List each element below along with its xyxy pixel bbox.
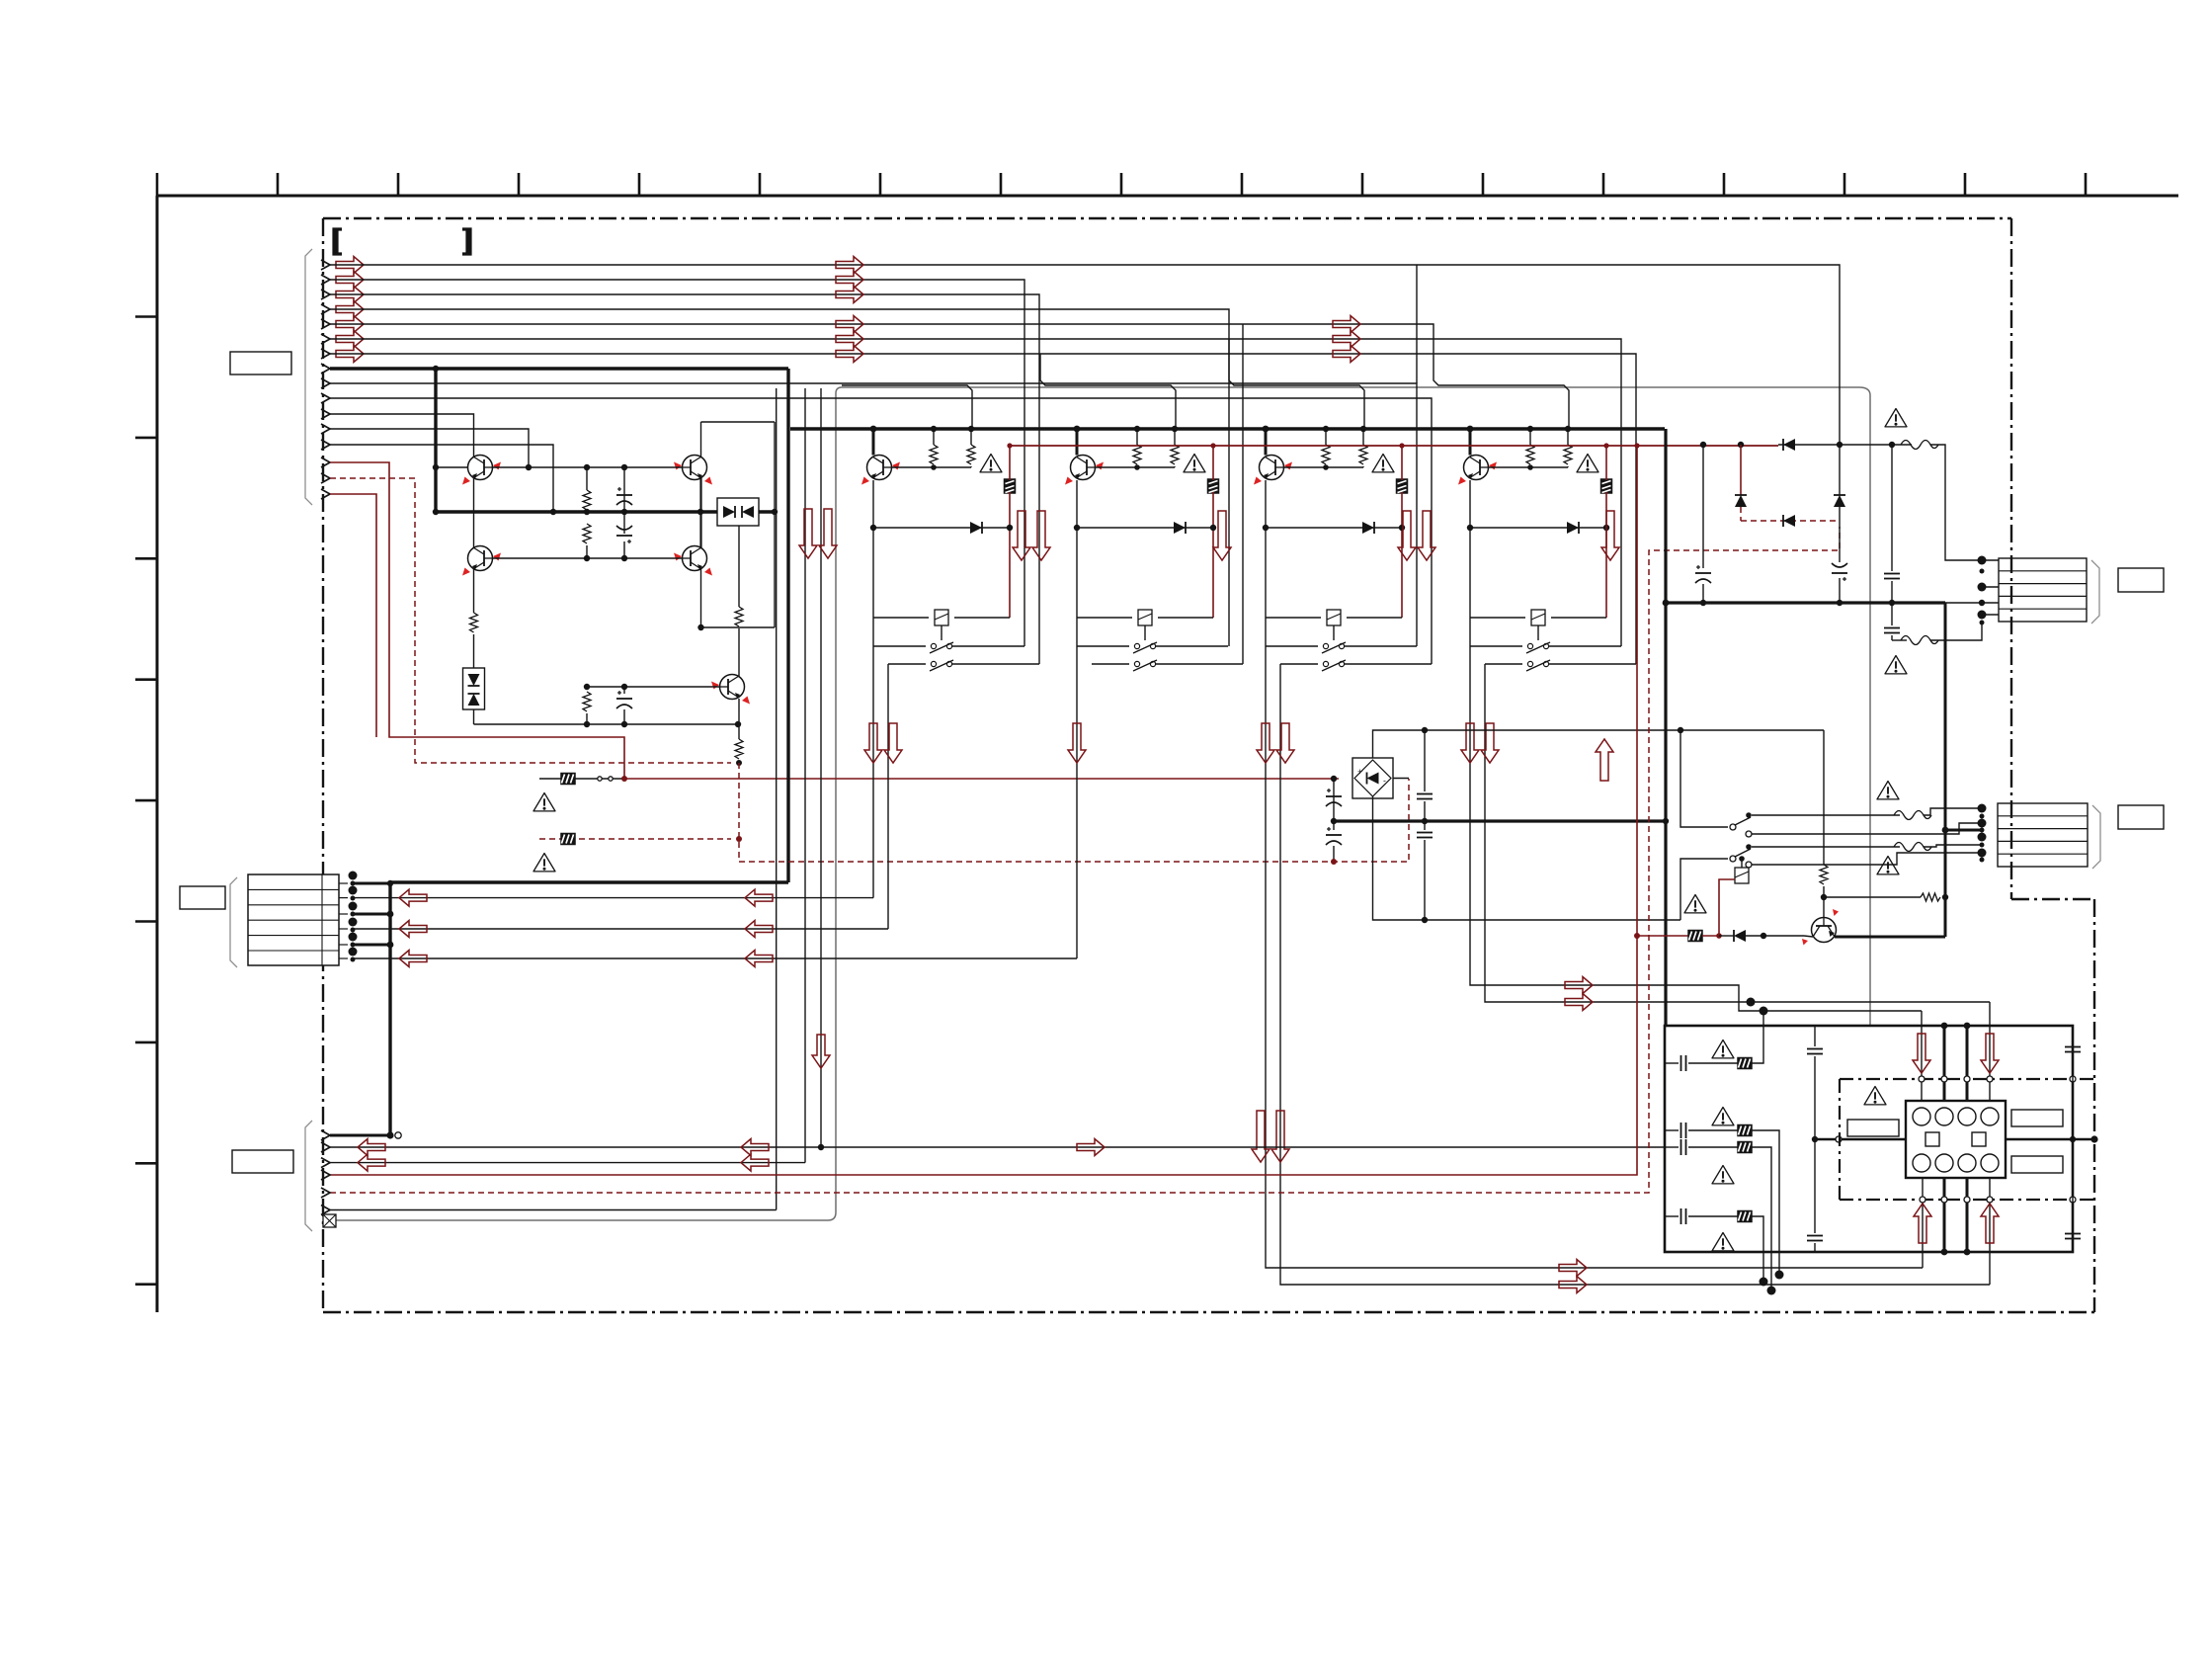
switch S4b <box>1485 660 1636 671</box>
wire bridge bottom out <box>1373 796 1681 920</box>
switch S3b <box>1280 660 1432 671</box>
dots mid rail <box>584 684 741 727</box>
resistor R11 <box>930 426 938 470</box>
wire supply stub block3 <box>1263 426 1270 456</box>
wire Q3 to R3 <box>473 569 475 613</box>
wire vertical block3 aux <box>1416 265 1418 383</box>
wire f4 right <box>1924 845 1982 847</box>
wire cn2 row thick2 <box>353 913 390 916</box>
wire row4 <box>1665 1215 1738 1217</box>
transistor Q2 <box>674 456 712 485</box>
arrows pair D <box>1398 511 1435 560</box>
dot red row <box>621 776 627 782</box>
wire C3 b <box>623 709 625 724</box>
wire row1b <box>1752 1011 1763 1063</box>
cap row1 <box>1681 1055 1686 1071</box>
wire m1 pins <box>1982 560 1999 615</box>
resistor R41 <box>1526 426 1534 470</box>
wire row3 <box>1665 1146 1738 1148</box>
board boundary dash-dot right lower <box>2093 899 2095 1312</box>
wire left drop block2 <box>1076 528 1078 646</box>
warning tri row2 <box>1712 1108 1734 1125</box>
warning tri row4 <box>1712 1233 1734 1251</box>
dots bottom out <box>1760 1271 1784 1295</box>
arrows cn3 right <box>741 1139 769 1172</box>
transistor Q5 <box>711 675 750 705</box>
wire c12 <box>1424 730 1426 791</box>
wire Q2 collector drop <box>699 478 701 547</box>
wire Q2 top <box>700 422 702 457</box>
wire relay feed <box>1815 1138 1906 1140</box>
diode D13 <box>1783 515 1795 527</box>
arrow up J <box>1596 739 1613 781</box>
label box relay left <box>1847 1120 1899 1136</box>
wire f3 right <box>1924 808 1982 815</box>
wire c17 down <box>1891 635 1893 640</box>
arrows into block top <box>1565 977 1593 1011</box>
wire red-dash row15 <box>330 478 731 763</box>
capacitor C13 <box>1417 833 1433 838</box>
wire red drop lower block1 <box>1009 492 1011 618</box>
connector CN2 pin stubs <box>339 883 348 958</box>
dot dash node <box>736 760 742 766</box>
long row2 wire <box>330 1146 1666 1148</box>
wire c23b <box>2072 1241 2074 1252</box>
transistor Q1 <box>462 456 501 485</box>
long red dash row <box>330 527 1840 1193</box>
wire d12 up <box>1839 445 1841 495</box>
dots diode row <box>1700 442 1895 448</box>
wire red drop lower block4 <box>1605 492 1607 618</box>
warning tri relay <box>1864 1087 1886 1105</box>
relay coil RY2 <box>1735 868 1749 883</box>
thick bus rail A <box>790 427 1665 430</box>
wire bus row10 <box>330 398 1432 664</box>
wire Q5 base rail <box>587 686 719 688</box>
block2 descender d1 <box>1076 646 1078 958</box>
wire c12-13 <box>1424 801 1426 830</box>
wire bus row6 <box>330 339 1621 646</box>
wire mid rail <box>474 723 740 725</box>
arrows pair H2 <box>1257 723 1294 763</box>
shield wire grey rail <box>336 387 1870 1220</box>
right rail thin ext <box>1945 602 1999 604</box>
warning tri row3 <box>1712 1166 1734 1184</box>
resistor R31 <box>1322 426 1330 470</box>
capacitor C1 <box>616 487 632 505</box>
arrow right mid <box>1077 1139 1105 1156</box>
wire left drop block1 <box>872 528 874 646</box>
resistor R21 <box>1820 865 1828 884</box>
svg-text:+: + <box>1357 767 1362 777</box>
resistor R32 <box>1359 426 1367 467</box>
relay pin v1 <box>1921 1011 1923 1101</box>
capacitor C16 <box>1884 574 1900 579</box>
warning triangle block1 <box>980 455 1002 472</box>
board boundary dash-dot right step <box>2011 898 2094 900</box>
dot dash2 <box>736 836 742 842</box>
dot base rails <box>526 464 627 561</box>
dual diode D1 <box>717 498 759 526</box>
resistor R4 <box>735 607 743 626</box>
transistor Q3 <box>462 546 501 576</box>
wire bus row2 <box>330 280 1024 646</box>
open circles relay bottom <box>1920 1197 2076 1203</box>
signal arrows out of CN1 <box>336 257 364 363</box>
relay block RY1 <box>1906 1101 2006 1178</box>
wire f2 <box>1892 639 1907 641</box>
connector CN2 body <box>248 874 339 965</box>
wire selector feed1 <box>1680 730 1728 827</box>
wire bus row13 <box>330 445 553 512</box>
warning triangle block4 <box>1577 455 1598 472</box>
diode D14 <box>1734 930 1746 942</box>
cap row4 <box>1681 1208 1686 1224</box>
wire emitter drop Q12 <box>1076 480 1078 528</box>
dot top rail sel <box>1678 727 1683 733</box>
amplifier channel block 4 <box>1458 426 1636 671</box>
wire bus row12 <box>330 429 529 467</box>
thick vertical right <box>1944 603 1947 930</box>
wire left drop block3 <box>1265 528 1267 646</box>
wire c15 <box>1839 507 1841 562</box>
label box M2 <box>2118 805 2164 829</box>
arrows pair A <box>799 509 837 558</box>
amplifier channel block 2 <box>1065 426 1243 671</box>
fusible resistor FR21 <box>1208 479 1219 493</box>
warning triangle fr2 <box>533 854 555 872</box>
wire q6 emitter thick <box>1835 936 1945 939</box>
wire cn3 row1 thick <box>330 1134 390 1137</box>
diode D10 <box>1783 439 1795 451</box>
long wire mid2 <box>353 928 888 930</box>
wire Q1-Q2 base rail <box>493 466 683 468</box>
wire sel out1 <box>1752 814 1900 816</box>
amplifier channel block 1 <box>861 426 1039 671</box>
diode D11 <box>970 522 982 534</box>
long wire mid1 <box>353 897 873 899</box>
fusible FR4 <box>1738 1125 1752 1136</box>
board boundary dash-dot bottom <box>323 1311 2094 1313</box>
wire red drop lower block2 <box>1212 492 1214 618</box>
wire bus row7 <box>330 354 1636 664</box>
wire bridge minus v <box>1333 779 1335 830</box>
wire sel out2 <box>1752 846 1900 848</box>
capacitor C3 <box>616 691 632 708</box>
diode D21 <box>1174 522 1186 534</box>
block4 descender d1 <box>1470 646 1922 1011</box>
switch S4a <box>1470 642 1621 653</box>
wire c17 v <box>1891 581 1893 625</box>
motor M2 pin dots <box>1978 804 1987 863</box>
resistor R20 <box>1921 893 1940 901</box>
label box CN3 <box>232 1150 293 1173</box>
wire fusible row2 dash <box>539 838 731 840</box>
board boundary dash-dot right upper <box>2010 218 2012 899</box>
diode D41 <box>1567 522 1579 534</box>
long red row <box>330 446 1637 1175</box>
resistor R3 <box>470 613 478 632</box>
wire c23 <box>2072 1139 2074 1231</box>
wire red drop lower block3 <box>1401 492 1403 618</box>
arrows relay top <box>1913 1034 1999 1073</box>
board boundary dash-dot top <box>323 217 2011 219</box>
connector CN2 bracket <box>230 877 237 967</box>
board title bracket right <box>462 229 470 254</box>
block4 descender d2 <box>1485 664 1990 1002</box>
arrows pair B <box>1013 511 1050 560</box>
transistor Q4 <box>674 546 712 576</box>
dot c11 bottom <box>1331 859 1337 865</box>
wire ry2 row red <box>1637 935 1688 937</box>
resistor R1 <box>583 490 591 510</box>
wire c15 down <box>1839 578 1841 603</box>
junction dots thick net <box>387 366 778 886</box>
thick right rail <box>1665 601 1945 604</box>
resistor R22 <box>1171 426 1179 467</box>
wire Q3-Q4 base rail <box>493 557 683 559</box>
resistor R2 <box>583 524 591 543</box>
relay pin v2 low <box>1943 1178 1946 1252</box>
capacitor C11 <box>1326 827 1342 845</box>
arrows cn3 <box>358 1139 385 1172</box>
label box CN1 <box>230 352 291 374</box>
red supply bus <box>1010 445 1778 447</box>
thick mid rail <box>1334 819 1666 822</box>
block3 descender d2 <box>1280 664 1990 1285</box>
amplifier channel block 3 <box>1254 426 1432 671</box>
capacitor C12 <box>1417 794 1433 799</box>
wire left drop block4 <box>1469 528 1471 646</box>
wire red drop upper block3 <box>1401 446 1403 480</box>
dot relay out <box>2070 1135 2098 1142</box>
diode D12 <box>1834 495 1845 507</box>
zener pair D2 <box>463 668 485 709</box>
wire bridge top out <box>1373 730 1825 758</box>
capacitor C15 <box>1832 563 1847 581</box>
cap C23 <box>2065 1234 2081 1239</box>
transistor Q14 <box>1458 456 1497 485</box>
wire d11 down <box>1740 507 1742 521</box>
dot ry2 top <box>1739 856 1745 862</box>
wire R3 to D2 <box>473 634 475 668</box>
thick bottom rail <box>390 880 788 883</box>
arrows on mid wires L <box>399 889 427 966</box>
long wire mid3 <box>353 957 1077 959</box>
frame tick marks top <box>157 173 2086 196</box>
dot drop C <box>818 1144 824 1150</box>
wire Q1 collector drop <box>473 478 475 547</box>
fuse F2 <box>1901 636 1938 645</box>
wire drop B <box>804 388 806 1163</box>
wire R2 bot <box>586 545 588 558</box>
wire Q2 collector loop <box>701 421 776 423</box>
connector CN3 shield pin <box>323 1214 336 1227</box>
connector CN3 bracket <box>305 1121 312 1231</box>
wire Q4 emitter loop <box>701 569 776 627</box>
wire row2 <box>1665 1129 1738 1131</box>
wire c14 <box>1702 445 1704 568</box>
relay unit dash-dot box <box>1840 1079 2094 1200</box>
long row6 wire <box>330 1209 777 1211</box>
wire row2b <box>1752 1130 1779 1275</box>
arrow single E <box>1601 511 1619 560</box>
dot thick2 <box>387 911 394 918</box>
connector CN1 bracket <box>305 249 312 505</box>
thick vert extend <box>1944 930 1947 937</box>
wire loop to R4 <box>738 526 740 607</box>
board title bracket left <box>334 229 342 254</box>
svg-text:-: - <box>1383 776 1386 786</box>
red wire ry2 <box>1719 879 1735 936</box>
warning tri row1 <box>1712 1040 1734 1058</box>
wire cn2 row thick1 <box>353 882 390 885</box>
wire fusible row1 <box>539 778 624 780</box>
wire selector feed2 <box>1680 859 1728 920</box>
wire q6 collector up <box>1823 897 1825 918</box>
dot fr7 red <box>1716 933 1722 939</box>
block3 descender d1 <box>1266 646 1923 1268</box>
wire row4b <box>1752 1216 1763 1282</box>
wire relay out right <box>2006 1138 2094 1140</box>
wire interconnect run1 <box>842 385 972 429</box>
wire emitter drop Q14 <box>1469 480 1471 528</box>
wire d11-d12 link <box>1741 520 1840 522</box>
resistor R12 <box>967 426 975 467</box>
wire diode row block4 <box>1467 525 1609 531</box>
wire Q5 emitter <box>738 699 740 739</box>
thick net vertical stub <box>434 369 437 512</box>
capacitor C17 <box>1884 628 1900 633</box>
dot relay feed <box>1812 1136 1818 1142</box>
motor M1 pin dots <box>1978 556 1987 625</box>
wire bus row4 <box>330 309 1229 646</box>
arrows pair I <box>1461 723 1499 763</box>
wire base rail block2 <box>1095 466 1175 468</box>
fusible resistor FR41 <box>1601 479 1612 493</box>
wire vertical block2 aux <box>1242 324 1244 664</box>
fuse F1 <box>1901 441 1938 450</box>
frame tick marks left <box>135 317 157 1285</box>
dots right rail <box>1700 600 1985 606</box>
connector CN1 pins <box>321 260 330 499</box>
capacitor C10 <box>1326 789 1342 806</box>
wire R5 bot <box>586 713 588 724</box>
switch S2b <box>1092 660 1243 671</box>
wire base rail block3 <box>1283 466 1363 468</box>
dot thick3 <box>387 942 394 949</box>
warning triangle block2 <box>1184 455 1205 472</box>
fusible resistor FR31 <box>1397 479 1408 493</box>
fusible resistor FR2 <box>561 834 575 845</box>
connector CN3 pins <box>321 1130 330 1215</box>
wire q6 base <box>1804 936 1813 937</box>
wire C3 v <box>623 687 625 694</box>
resistor R42 <box>1564 426 1572 467</box>
block1 descender d1 <box>872 646 874 898</box>
wire red v1762 <box>1740 445 1742 495</box>
fuse F3 <box>1894 811 1931 820</box>
wire red drop upper block4 <box>1605 446 1607 480</box>
wire supply stub block2 <box>1074 426 1081 456</box>
warning tri m2 b <box>1877 857 1899 874</box>
resistor R5 <box>583 692 591 711</box>
long row3 wire <box>330 1162 805 1164</box>
thick rail left amp <box>436 510 775 513</box>
switch S2a <box>1077 642 1228 653</box>
dot row1 <box>386 1131 393 1138</box>
wire red drop upper block1 <box>1009 446 1011 480</box>
wire sel oc1 <box>1752 823 1982 834</box>
wire emitter drop Q13 <box>1265 480 1267 528</box>
bridge rectifier BR1 <box>1352 758 1393 798</box>
wire interconnect run3 <box>1229 339 1364 429</box>
fusible FR5 <box>1738 1142 1752 1153</box>
contact gap row1 <box>598 777 613 781</box>
arrows relay bottom <box>1914 1204 1999 1243</box>
dot Q4 loop <box>697 624 703 630</box>
relay pin v3 <box>1966 1026 1969 1101</box>
red dash elbow <box>739 763 1409 862</box>
transistor Q12 <box>1065 456 1104 485</box>
warning tri right mid <box>1885 656 1907 674</box>
wire right loop vertical <box>774 422 776 627</box>
wire emitter drop Q11 <box>872 480 874 528</box>
thick drop to lower connector <box>388 883 391 1135</box>
fusible resistor FR1 <box>561 774 575 785</box>
wire c11 down <box>1333 846 1335 862</box>
wire c13 down <box>1424 840 1426 920</box>
wire bus row9 <box>330 383 1417 646</box>
open circles relay top <box>1919 1076 2076 1082</box>
selector switch S5 <box>1730 812 1752 868</box>
wire supply stub block1 <box>870 426 877 456</box>
wire c20 <box>1814 1026 1816 1139</box>
power block outline <box>1665 1026 2073 1252</box>
wire c14 down <box>1702 584 1704 603</box>
thick vertical 1686 <box>1664 429 1667 1026</box>
wire r20 <box>1824 896 1921 898</box>
warning triangle fr1 <box>533 793 555 811</box>
transistor Q6 <box>1802 909 1839 946</box>
diode D11 <box>1735 495 1747 507</box>
warning tri m2 a <box>1877 782 1899 799</box>
warning triangle block3 <box>1372 455 1394 472</box>
wire R1 top <box>586 467 588 490</box>
border frame top rule <box>157 195 2178 198</box>
capacitor C14 <box>1695 565 1711 583</box>
wire base rail block1 <box>891 466 971 468</box>
wire red row16 <box>330 494 376 737</box>
dots red bus <box>1007 443 1639 448</box>
relay pin v1 low <box>1922 1178 1924 1268</box>
arrows pair F <box>864 723 902 763</box>
border frame left rule <box>156 196 159 1312</box>
dot mid rail <box>1331 818 1669 824</box>
wire cn2 row thick3 <box>353 944 390 947</box>
wire diode row block3 <box>1263 525 1405 531</box>
wire red row14 <box>330 462 1339 779</box>
wire fr7 red <box>1702 935 1719 937</box>
switch S1b <box>888 660 1039 671</box>
switch S1a <box>873 642 1024 653</box>
wire bus row11 <box>330 414 474 457</box>
arrow small down on C <box>812 1035 830 1068</box>
wire red drop upper block2 <box>1212 446 1214 480</box>
dot c13 <box>1422 917 1428 923</box>
thick wire m2 <box>1943 829 1982 832</box>
wire R4 to Q5 <box>738 628 740 676</box>
